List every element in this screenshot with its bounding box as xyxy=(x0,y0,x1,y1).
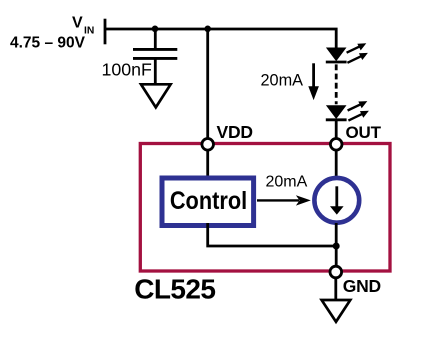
wire: capacitor bottom lead xyxy=(154,58,157,84)
junction node bottom xyxy=(333,243,340,250)
input terminal tick xyxy=(104,19,107,45)
current source I1 xyxy=(314,178,359,223)
Control block xyxy=(162,178,254,226)
IC body CL525 (red box) xyxy=(140,144,390,272)
svg-text:4.75 – 90V: 4.75 – 90V xyxy=(10,35,86,52)
ground symbol (GND pin) xyxy=(322,300,351,322)
pin GND node xyxy=(330,266,342,278)
LED D2 xyxy=(326,106,347,120)
LED D2 emission arrows xyxy=(348,101,369,121)
svg-text:V: V xyxy=(72,15,83,32)
svg-text:100nF: 100nF xyxy=(102,60,153,80)
LED D1 xyxy=(326,48,347,62)
svg-text:Control: Control xyxy=(170,187,247,215)
wire: OUT pin to current source xyxy=(335,151,338,179)
wire: GND pin to ground symbol xyxy=(334,278,337,300)
svg-text:GND: GND xyxy=(343,276,381,296)
wire: LED2 to OUT pin xyxy=(335,121,338,138)
wire: capacitor top lead xyxy=(154,29,157,50)
LED D1 emission arrows xyxy=(347,43,368,63)
wire: Control block to bottom rail xyxy=(208,223,337,246)
ground symbol (capacitor) xyxy=(141,84,171,107)
capacitor C1 plates xyxy=(133,49,177,58)
wire: VDD drop xyxy=(206,29,209,138)
wire: top rail from VIN to LED chain xyxy=(105,29,336,48)
svg-text:IN: IN xyxy=(84,25,94,36)
wire: current source to GND rail xyxy=(335,223,338,267)
svg-text:CL525: CL525 xyxy=(134,274,215,305)
wire: dashed LED chain continuation xyxy=(335,64,338,104)
label V_IN xyxy=(72,15,94,37)
pin OUT node xyxy=(330,139,342,151)
svg-text:20mA: 20mA xyxy=(266,174,308,191)
svg-text:OUT: OUT xyxy=(346,123,382,142)
svg-text:VDD: VDD xyxy=(217,122,253,142)
junction node at VDD drop xyxy=(204,26,211,33)
svg-text:20mA: 20mA xyxy=(261,72,304,90)
arrow: Control to current source xyxy=(257,195,311,205)
junction node at capacitor xyxy=(152,26,159,33)
pin VDD node xyxy=(202,139,214,151)
arrow: LED current direction xyxy=(308,63,319,100)
wire: VDD pin to Control block xyxy=(206,151,209,178)
